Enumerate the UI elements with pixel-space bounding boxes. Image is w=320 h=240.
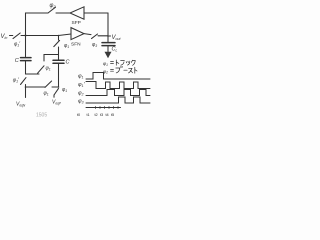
svg-text:φ3: φ3	[92, 42, 97, 48]
time axis	[86, 107, 121, 109]
switch S4 phi1' (left branch)	[21, 78, 27, 85]
svg-text:1505: 1505	[36, 113, 47, 119]
wire right branch mid	[58, 47, 60, 59]
svg-text:φ3: φ3	[78, 99, 84, 105]
node B junction dot (right branch tap)	[58, 35, 60, 37]
ground (arrow)	[107, 46, 109, 52]
wire right branch lower	[58, 64, 60, 87]
wire to Vout node	[98, 35, 108, 37]
svg-text:VeqP: VeqP	[52, 100, 62, 106]
svg-text:SFN: SFN	[71, 42, 81, 48]
svg-text:φ2: φ2	[78, 91, 84, 97]
svg-text:φ1′: φ1′	[14, 42, 21, 48]
svg-text:φ1: φ1	[44, 91, 49, 97]
node A junction dot	[25, 35, 27, 37]
wire gamma connector	[44, 55, 59, 62]
svg-text:φ2: φ2	[50, 3, 57, 9]
svg-text:t1: t1	[87, 113, 90, 117]
op-amp U1 SFP buffer	[70, 7, 84, 19]
svg-text:φ1: φ1	[62, 87, 67, 93]
axis labels t0-t5	[77, 113, 114, 117]
svg-text:φ1: φ1	[64, 43, 69, 49]
svg-text:φ1: φ1	[103, 62, 108, 67]
switch S1 phi1' (input)	[13, 33, 20, 39]
switch S8 phi3 (output)	[92, 34, 98, 39]
svg-text:t5: t5	[111, 113, 114, 117]
svg-text:Vout: Vout	[112, 35, 122, 41]
switch S3 phi1 (mid diagonal)	[38, 66, 44, 73]
svg-text:t0: t0	[77, 113, 80, 117]
op-amp U2 SFN buffer	[71, 28, 84, 40]
svg-text:t2: t2	[95, 113, 98, 117]
capacitor C (left)	[21, 58, 32, 61]
switch S5 phi1 (right branch top)	[54, 36, 60, 47]
svg-text:SFP: SFP	[72, 20, 81, 26]
waveform phi3 trace	[86, 97, 150, 103]
wire Vin lead	[10, 35, 13, 37]
svg-text:VeqN: VeqN	[16, 102, 26, 108]
capacitor CL (load)	[102, 43, 115, 46]
wire mid rail to SFN	[21, 34, 71, 36]
node Vout junction dot	[107, 35, 109, 37]
waveform phi1 trace	[86, 73, 150, 80]
wire VeqP stub	[53, 95, 55, 97]
wire SFN output	[84, 34, 91, 35]
svg-text:t4: t4	[106, 113, 109, 117]
wire bottom horizontal	[26, 86, 59, 88]
capacitor C (right)	[53, 60, 64, 63]
waveform phi1' trace	[86, 82, 150, 89]
wire left branch lower	[25, 85, 27, 98]
switch S6 phi1 (bottom horizontal)	[45, 81, 52, 87]
svg-text:Vin: Vin	[1, 34, 8, 40]
svg-text:C: C	[15, 58, 19, 64]
svg-text:φ1: φ1	[46, 66, 51, 72]
svg-text:φ1: φ1	[78, 74, 84, 80]
waveform phi2 trace	[86, 90, 150, 96]
wire left branch upper	[25, 36, 27, 57]
svg-text:φ1′: φ1′	[13, 78, 20, 84]
switch S2 phi2 (top rail)	[48, 7, 56, 13]
axis ticks	[96, 107, 119, 109]
svg-text:C: C	[66, 60, 70, 66]
wire top rail	[26, 13, 109, 36]
node C junction dot (left branch / bottom wire)	[25, 86, 27, 88]
svg-text:t3: t3	[100, 113, 103, 117]
svg-text:CL: CL	[112, 47, 118, 53]
node Vout tick	[108, 35, 111, 37]
svg-text:φ1′: φ1′	[78, 82, 85, 88]
wire left branch mid	[26, 61, 40, 74]
node D junction dot (right branch / bottom wire)	[58, 86, 60, 88]
wire Vout vertical	[107, 13, 109, 42]
switch S7 phi1 (bottom right)	[54, 88, 59, 95]
